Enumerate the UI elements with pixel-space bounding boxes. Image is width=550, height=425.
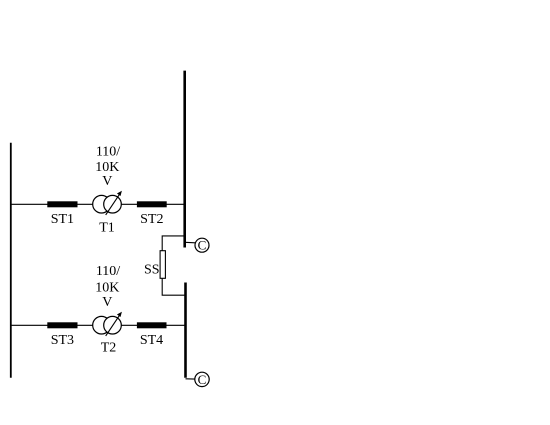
svg-text:SS: SS <box>144 262 160 277</box>
svg-text:ST3: ST3 <box>51 333 74 348</box>
svg-text:110/: 110/ <box>96 144 120 159</box>
svg-text:ST2: ST2 <box>140 212 163 227</box>
wire T2 row <box>11 324 186 326</box>
svg-text:T2: T2 <box>101 341 117 356</box>
svg-text:V: V <box>102 295 112 310</box>
transformer T2 <box>93 312 122 356</box>
svg-text:V: V <box>102 174 112 189</box>
svg-text:C: C <box>198 238 207 253</box>
svg-text:C: C <box>198 372 207 387</box>
transformer T1 <box>93 191 122 236</box>
switch SS (open) <box>160 251 165 279</box>
svg-text:T1: T1 <box>99 221 115 236</box>
label 110/10KV for T1 <box>95 144 120 189</box>
MV bus upper <box>183 71 186 248</box>
wire SS branch <box>162 236 185 295</box>
svg-text:ST4: ST4 <box>140 333 163 348</box>
switch ST2 <box>137 201 167 207</box>
MV bus lower <box>184 283 187 378</box>
svg-text:ST1: ST1 <box>51 212 74 227</box>
label 110/10KV for T2 <box>95 264 120 310</box>
HV source bus (left vertical) <box>10 143 12 378</box>
svg-text:10K: 10K <box>95 280 119 295</box>
capacitor C feeder3 <box>186 372 210 387</box>
svg-text:110/: 110/ <box>96 264 120 279</box>
capacitor C feeder2 <box>185 238 209 253</box>
wire T1 row <box>11 203 185 205</box>
switch ST1 <box>47 201 77 207</box>
svg-text:10K: 10K <box>95 160 119 175</box>
switch ST4 <box>137 322 167 328</box>
switch ST3 <box>47 322 77 328</box>
